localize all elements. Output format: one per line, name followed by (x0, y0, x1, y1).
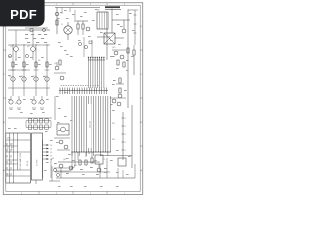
svg-text:SHEET 1: SHEET 1 (12, 143, 14, 150)
svg-text:U4: U4 (88, 153, 90, 155)
svg-text:D3: D3 (50, 155, 52, 157)
svg-text:R22: R22 (112, 123, 115, 125)
svg-text:PDF: PDF (10, 7, 37, 22)
svg-text:Q11: Q11 (63, 159, 66, 161)
svg-text:R1: R1 (15, 60, 17, 62)
svg-text:Q1: Q1 (10, 46, 13, 48)
svg-text:Q5: Q5 (9, 76, 12, 78)
svg-text:CN1-40: CN1-40 (90, 120, 92, 128)
svg-text:R7: R7 (15, 103, 17, 105)
svg-text:D0: D0 (50, 145, 52, 147)
svg-text:R24: R24 (112, 139, 115, 141)
svg-text:R3: R3 (38, 60, 40, 62)
svg-text:IC-7805: IC-7805 (37, 160, 39, 166)
svg-text:C9: C9 (103, 159, 105, 161)
svg-text:PC-817 AMP SCH: PC-817 AMP SCH (19, 153, 22, 170)
svg-text:R9: R9 (38, 103, 40, 105)
svg-text:Q10: Q10 (112, 47, 115, 49)
svg-text:REV A: REV A (26, 160, 29, 166)
svg-text:D4: D4 (50, 159, 52, 161)
svg-text:Q2: Q2 (27, 46, 30, 48)
svg-text:R31: R31 (74, 165, 77, 167)
svg-text:D2: D2 (50, 152, 52, 154)
svg-text:Q9: Q9 (54, 63, 56, 65)
svg-text:TITLE: TITLE (8, 144, 10, 150)
svg-text:D1: D1 (50, 148, 52, 150)
